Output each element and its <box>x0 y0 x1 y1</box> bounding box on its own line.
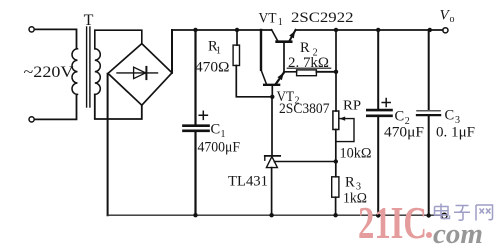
svg-text:21IC: 21IC <box>358 197 427 248</box>
svg-text:1: 1 <box>278 17 283 28</box>
svg-text:470Ω: 470Ω <box>195 60 230 76</box>
svg-text:2. 7kΩ: 2. 7kΩ <box>288 55 329 71</box>
svg-text:0. 1μF: 0. 1μF <box>436 125 475 141</box>
svg-text:1: 1 <box>221 129 226 140</box>
svg-text:C: C <box>445 108 455 124</box>
svg-text:T: T <box>84 12 94 29</box>
svg-text:RP: RP <box>343 98 361 113</box>
svg-text:10kΩ: 10kΩ <box>340 146 372 162</box>
svg-text:R: R <box>345 175 355 191</box>
svg-text:TL431: TL431 <box>228 174 268 190</box>
svg-text:o: o <box>450 14 455 25</box>
svg-text:~220V: ~220V <box>24 64 74 81</box>
svg-text:2SC3807: 2SC3807 <box>279 101 330 117</box>
svg-text:C: C <box>211 122 221 138</box>
svg-text:1: 1 <box>216 46 221 57</box>
svg-text:com: com <box>433 218 483 250</box>
svg-text:4700μF: 4700μF <box>198 140 241 156</box>
svg-text:470μF: 470μF <box>384 125 424 141</box>
svg-text:2SC2922: 2SC2922 <box>291 10 354 26</box>
svg-text:VT: VT <box>259 11 277 27</box>
svg-text:C: C <box>395 109 405 125</box>
svg-text:R: R <box>300 40 310 56</box>
